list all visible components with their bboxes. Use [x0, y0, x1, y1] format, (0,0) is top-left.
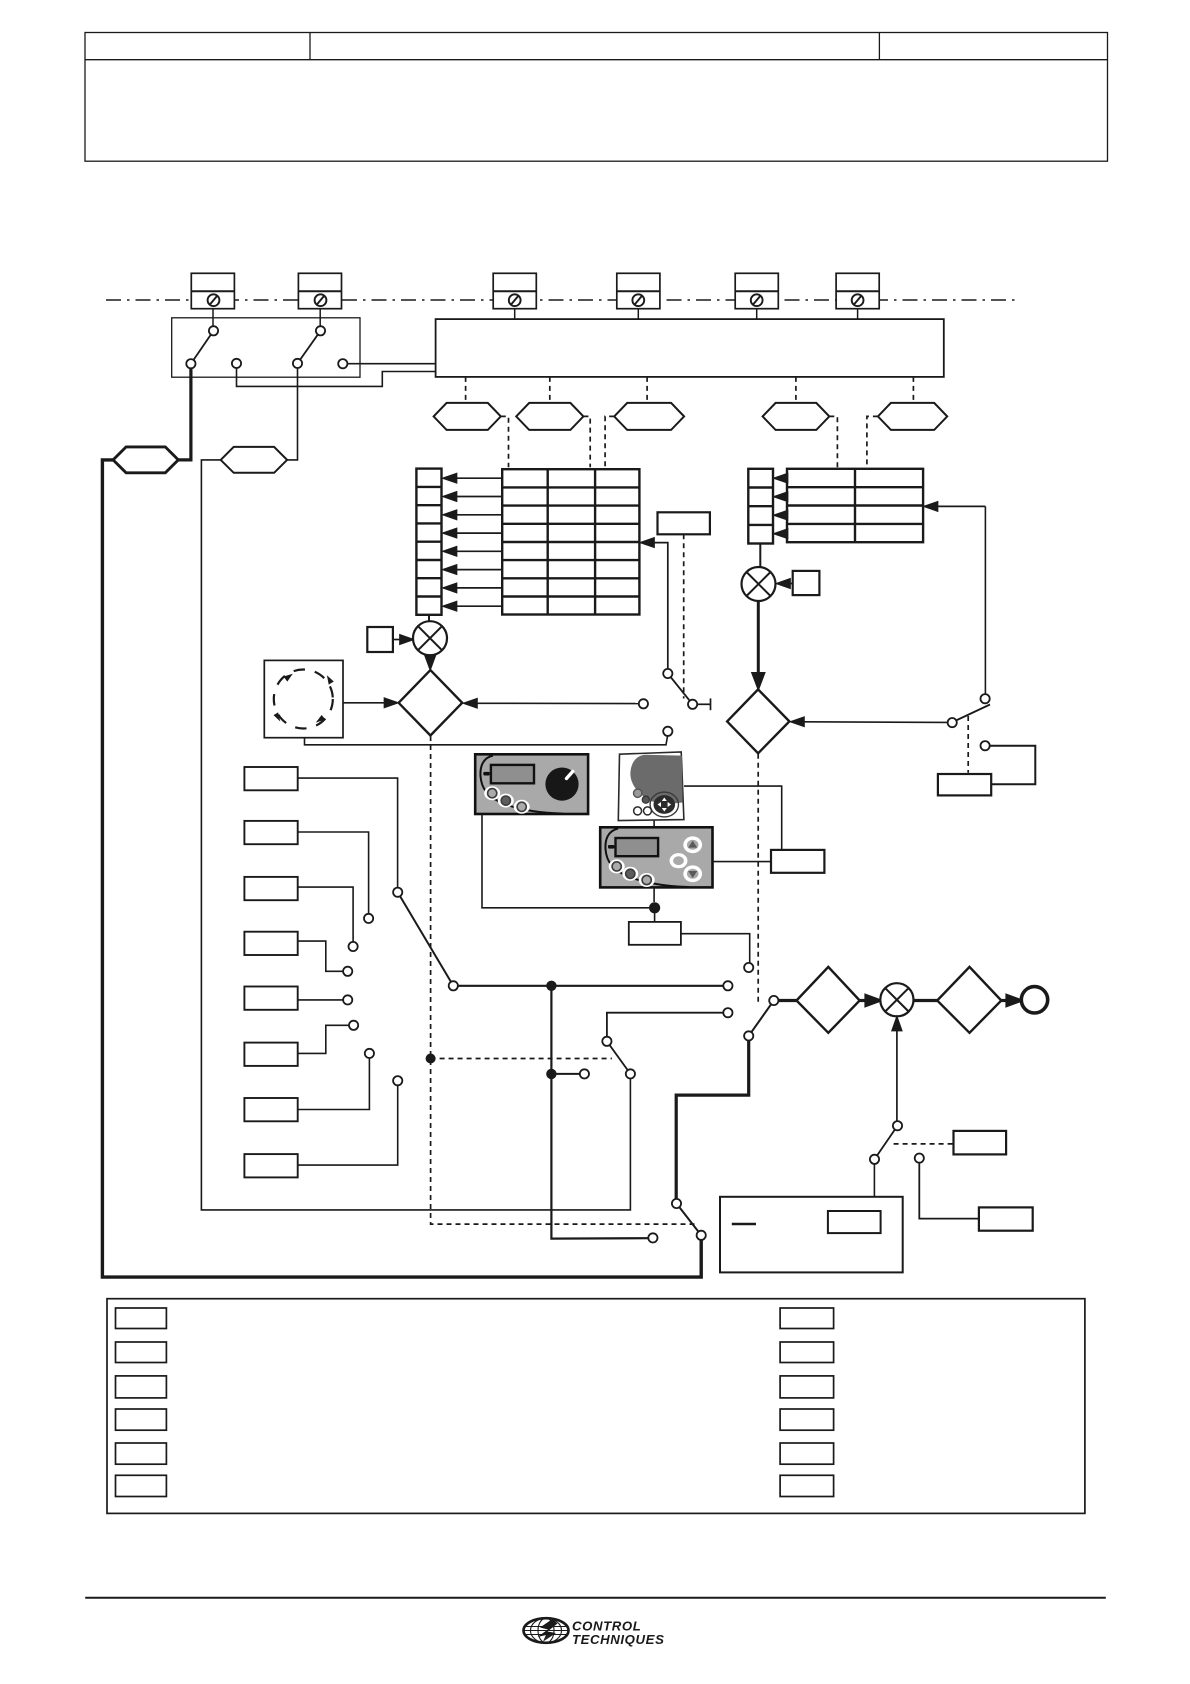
terminal T4	[617, 273, 660, 319]
dashed link M5 to jog table	[867, 416, 878, 467]
legend key box L4	[116, 1409, 167, 1430]
preset row arrow 8	[455, 605, 502, 607]
trim mode parameter box	[954, 1131, 1007, 1155]
preset reference table 8x3	[502, 469, 639, 614]
legend key box R5	[780, 1443, 834, 1464]
wire PB8 to selector contact 8	[298, 1086, 398, 1166]
inner parameter box	[828, 1211, 881, 1233]
preset box PB2	[244, 821, 297, 844]
wire PB2 to selector contact 2	[298, 832, 369, 914]
multiplier X3	[880, 983, 913, 1016]
parameter hexagon P2	[221, 447, 287, 473]
multiplier X1	[413, 621, 447, 655]
minus sign inside box	[732, 1223, 756, 1226]
terminal T5	[735, 273, 778, 319]
mode hexagon M1	[434, 403, 501, 430]
limiter diamond D4	[937, 967, 1001, 1033]
preset box PB7	[244, 1098, 297, 1121]
thick arrow D4 to output node	[1001, 996, 1020, 1006]
jog row arrow 1	[775, 474, 788, 539]
SW2 top contact	[316, 326, 325, 335]
wire ST lower contact to torque box	[873, 1164, 875, 1197]
dashed mode line below D1	[431, 736, 695, 1224]
digital input switch box	[172, 318, 360, 377]
wire down to analog contact	[551, 986, 648, 1239]
SW1 lower contact	[186, 359, 195, 368]
header title table	[85, 33, 1108, 162]
wire PB3 to selector contact 3	[298, 887, 353, 942]
terminal T6	[836, 273, 879, 319]
thick arrow D3 to multiplier X3	[860, 996, 880, 1006]
dashed control to jog mode box	[967, 716, 969, 773]
preset box PB1	[244, 767, 297, 790]
arrow into D2 from jog switch	[791, 717, 948, 726]
ST open contact	[915, 1154, 924, 1163]
wire PB1 to selector contact 1	[298, 778, 398, 887]
bottom switch SB arm	[677, 1204, 702, 1236]
arrow trim into X3 from below	[892, 1017, 901, 1121]
local switch SM arm	[607, 1041, 631, 1074]
switch wiper contact	[688, 700, 697, 709]
wire KP2 to comms box	[684, 786, 782, 850]
preset selector contact 1	[393, 888, 402, 897]
ST top contact	[893, 1121, 902, 1130]
arrow X1 to comparator D1	[426, 655, 435, 668]
parameter hexagon P1	[113, 447, 178, 473]
thick arrow X2 to D2	[753, 601, 764, 687]
legend key box R4	[780, 1409, 834, 1430]
contact node D	[338, 359, 347, 368]
motor rotation dashed circle	[274, 670, 333, 729]
jog row arrow 2	[786, 496, 787, 498]
wire SW2 to hexagon P2	[287, 368, 297, 460]
motor rotation arrowheads	[274, 674, 334, 723]
wire column to multiplier X1	[428, 615, 430, 621]
wire PB6 to selector contact 6	[298, 1025, 349, 1053]
switch SW2 arm	[298, 331, 321, 364]
legend key box L3	[116, 1376, 167, 1398]
jog destination column	[748, 469, 773, 544]
wire node D to control block	[348, 363, 436, 365]
SW2 lower contact	[293, 359, 302, 368]
terminal T2	[298, 273, 341, 326]
jog row arrow 4	[786, 533, 787, 535]
preset selector contact 4	[343, 967, 352, 976]
dashed control PR1 to reference switch	[683, 534, 685, 698]
main selector contact local	[723, 1008, 732, 1017]
wire keypad ref box to selector contact	[681, 934, 750, 963]
Control Techniques globe logo	[524, 1618, 569, 1643]
mode hexagon M4	[763, 403, 830, 430]
wire junction to keypad ref box	[654, 913, 656, 922]
arrow S2 to X2	[777, 579, 793, 588]
jog mode parameter box	[938, 774, 991, 795]
keypad reference box	[629, 922, 681, 945]
dashed link M4 to jog table	[829, 416, 837, 467]
wire KP2 to KP3	[653, 821, 655, 828]
reference select switch arm	[668, 674, 693, 705]
preset selector contact 7	[365, 1049, 374, 1058]
switch SW1 arm	[191, 331, 214, 364]
main selector contact preset	[723, 981, 732, 990]
main selector contact keypad	[744, 963, 753, 972]
wire KP1 bottom to junction	[482, 814, 649, 908]
preset destination column	[416, 469, 441, 615]
keypad KP3 body	[600, 827, 712, 887]
wire PB4 to selector contact 4	[298, 941, 343, 971]
SM pivot contact	[602, 1037, 611, 1046]
parameter box PR1	[658, 512, 710, 534]
mode hexagon M2	[516, 403, 583, 430]
loop wire SJ lower contact to box	[990, 746, 1036, 785]
preset selector contact 5	[343, 995, 352, 1004]
preset box PB8	[244, 1154, 297, 1177]
main selector contact analog	[744, 1031, 753, 1040]
preset selector contact 3	[349, 942, 358, 951]
mode hexagon M3	[614, 403, 684, 430]
switch SJ arm	[952, 705, 990, 723]
output node circle	[1021, 987, 1047, 1013]
preset selector contact 6	[349, 1021, 358, 1030]
thick wire SW1 to hexagon P1	[178, 368, 191, 460]
local wiper open contact	[580, 1069, 589, 1078]
preset box PB5	[244, 987, 297, 1010]
preset selector contact 8	[393, 1076, 402, 1085]
preset selector arm	[398, 892, 454, 986]
dashed drop to hexagon M1	[465, 377, 467, 403]
junction node preset line	[546, 981, 556, 991]
dashed link M2 to preset table	[583, 416, 590, 467]
preset row arrow 2	[455, 496, 502, 498]
wire wiper to local selector	[458, 985, 723, 987]
legend key box R3	[780, 1376, 834, 1398]
comms parameter box	[771, 850, 824, 873]
jog row arrow 3	[786, 514, 787, 516]
multiplier X2	[742, 567, 776, 601]
dashed branch to local switch	[431, 1058, 612, 1060]
dashed drop to hexagon M4	[795, 377, 797, 403]
dashed link M3 to preset table	[605, 416, 614, 467]
legend key box L6	[116, 1475, 167, 1496]
wire KP3 to comms box	[713, 861, 772, 863]
legend key box R1	[780, 1308, 834, 1329]
wire PB7 to selector contact 7	[298, 1058, 370, 1109]
preset box PB4	[244, 932, 297, 955]
torque reference big box	[720, 1197, 903, 1273]
dashed drop to hexagon M3	[646, 377, 648, 403]
preset row arrow 5	[455, 550, 502, 552]
mode hexagon M5	[878, 403, 947, 430]
SB lower contact	[697, 1231, 706, 1240]
keypad KP2 body	[618, 752, 684, 821]
legend key box R6	[780, 1475, 834, 1496]
terminal T1	[191, 273, 234, 326]
SB upper contact	[672, 1199, 681, 1208]
contact node B	[232, 359, 241, 368]
main selector arm	[749, 1001, 774, 1036]
switch contact keypad-side	[663, 669, 672, 678]
legend key box R2	[780, 1342, 834, 1363]
wire hexagon P2 to lower selector	[201, 460, 630, 1210]
svg-text:TECHNIQUES: TECHNIQUES	[572, 1632, 664, 1647]
SJ wiper contact	[948, 718, 957, 727]
preset row arrow 4	[455, 532, 502, 534]
legend key box L1	[116, 1308, 167, 1329]
keypad junction node	[649, 902, 660, 913]
terminal T3	[493, 273, 536, 319]
main control block	[436, 319, 944, 377]
dashed control to trim mode box	[894, 1143, 954, 1145]
arrow into jog table	[925, 502, 986, 511]
jog reference table 4x2	[787, 469, 923, 542]
Control Techniques wordmark	[572, 1619, 664, 1647]
comparator diamond D1	[399, 670, 463, 735]
stub to local wiper contact	[557, 1073, 580, 1075]
motor reference box	[264, 660, 343, 737]
arrow into D1 from reference switch	[464, 699, 639, 708]
preset row arrow 3	[455, 514, 502, 516]
wire lower contact to motor line	[305, 736, 668, 745]
preset row arrow 1	[444, 474, 503, 611]
offset parameter box	[979, 1207, 1033, 1230]
SM wiper contact	[626, 1069, 635, 1078]
trim switch ST arm	[875, 1126, 898, 1160]
thick bus contact4 to bottom switch	[676, 1041, 749, 1200]
main selector wiper contact	[769, 996, 778, 1005]
switch contact motor-side	[663, 727, 672, 736]
dashed drop to hexagon M5	[912, 377, 914, 403]
switch wiper terminator	[697, 698, 710, 710]
wire PB5 to selector contact 5	[298, 999, 343, 1001]
switch contact analog-side	[639, 699, 648, 708]
comparator diamond D2	[727, 689, 789, 753]
ST lower contact	[870, 1155, 879, 1164]
thick wire X3 to limiter D4	[914, 999, 938, 1002]
terminal rail dash-dot line	[106, 299, 1019, 301]
analog end contact	[648, 1233, 657, 1242]
dashed drop to hexagon M2	[549, 377, 551, 403]
scale parameter box S1	[367, 627, 393, 652]
thick left bus wire	[102, 460, 701, 1277]
dashed mode line below D2	[757, 754, 759, 1003]
wire node B to control block	[237, 368, 436, 386]
SJ lower contact	[981, 741, 990, 750]
wire KP3 bottom to junction	[653, 887, 655, 902]
SM wire up to remote contact	[607, 1013, 723, 1037]
junction node analog branch	[546, 1069, 556, 1079]
arrow S1 to X1	[393, 635, 413, 644]
SW1 top contact	[209, 326, 218, 335]
legend key box L2	[116, 1342, 167, 1363]
wire jog column to multiplier X2	[759, 544, 761, 567]
preset box PB3	[244, 877, 297, 900]
dashed junction dot	[426, 1054, 436, 1064]
wire ST open contact to offset box	[919, 1163, 979, 1219]
thick wire wiper to limiter D3	[779, 999, 797, 1002]
preset selector contact 2	[364, 914, 373, 923]
limiter diamond D3	[797, 967, 860, 1033]
legend key box L5	[116, 1443, 167, 1464]
preset selector wiper contact	[449, 981, 458, 990]
scale parameter box S2	[793, 571, 820, 595]
wire jog table line down to switch SJ	[984, 506, 986, 694]
preset box PB6	[244, 1043, 297, 1066]
keypad entry arrow into preset table	[641, 538, 668, 669]
legend outer box	[107, 1299, 1085, 1514]
keypad KP1 body	[475, 754, 588, 814]
footer rule	[85, 1597, 1106, 1599]
preset row arrow 7	[455, 587, 502, 589]
arrow motor box to D1	[343, 698, 398, 707]
SJ top contact	[981, 694, 990, 703]
preset row arrow 6	[455, 569, 502, 571]
dashed link M1 to preset table	[501, 416, 509, 467]
